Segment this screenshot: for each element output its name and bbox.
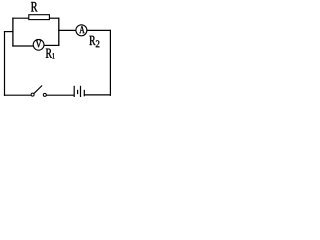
label R2 (resistance of ammeter) <box>89 36 99 47</box>
wire voltmeter branch left <box>12 45 33 47</box>
wire top branch left <box>12 17 29 19</box>
label R1 (resistance of voltmeter) <box>46 49 55 59</box>
wire outer left vertical <box>4 31 6 96</box>
wire parallel-box right vertical <box>58 18 60 46</box>
wire left stub (junction of outer loop with parallel box) <box>4 31 14 33</box>
wire bottom right (corner to battery) <box>84 94 111 96</box>
battery cell plate long (+) left <box>73 86 75 97</box>
voltmeter V <box>33 39 44 50</box>
wire bottom left (switch to corner) <box>4 94 31 96</box>
wire parallel-box left vertical <box>12 18 14 47</box>
switch lever (open) <box>34 86 42 94</box>
switch left contact <box>31 93 34 96</box>
ammeter A <box>76 25 87 36</box>
wire top branch right <box>49 17 59 19</box>
wire from ammeter to right corner <box>87 29 111 31</box>
battery cell plate short (-) right <box>83 90 85 97</box>
switch right contact <box>43 93 46 96</box>
wire from box to ammeter <box>58 29 76 31</box>
wire bottom middle (battery to switch) <box>46 94 74 96</box>
battery cell plate long (+) right <box>80 86 82 97</box>
battery cell plate short (-) left <box>77 90 79 94</box>
label R (value label of resistor R) <box>31 2 38 12</box>
resistor R <box>29 15 50 20</box>
wire voltmeter branch right <box>44 44 60 46</box>
wire outer right vertical <box>109 30 111 96</box>
